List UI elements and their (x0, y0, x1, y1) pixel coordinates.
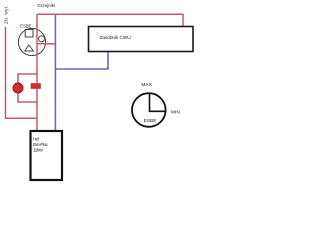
svg-text:Eko-Plus: Eko-Plus (33, 142, 48, 147)
svg-text:MAX: MAX (141, 82, 152, 88)
svg-text:12kW: 12kW (33, 148, 43, 153)
svg-text:Grzejniki: Grzejniki (37, 3, 55, 8)
svg-text:MIN: MIN (171, 109, 180, 115)
svg-text:ESBE: ESBE (144, 118, 157, 124)
svg-text:Zasobnik CWU: Zasobnik CWU (100, 35, 132, 41)
svg-text:ESBE: ESBE (20, 23, 31, 28)
svg-text:Zb. wyt.: Zb. wyt. (3, 5, 9, 24)
